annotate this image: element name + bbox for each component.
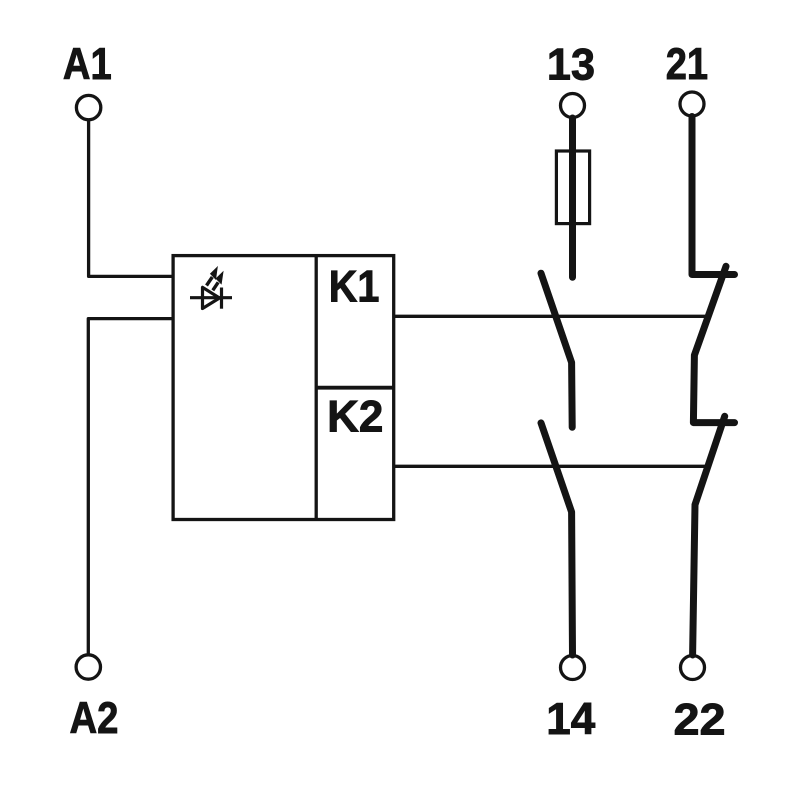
relay coil box U1 — [173, 256, 394, 520]
svg-text:K2: K2 — [327, 392, 383, 441]
divider between K1 and K2 — [316, 386, 394, 390]
divider between coil area and K columns — [315, 256, 318, 520]
svg-text:14: 14 — [546, 695, 595, 744]
svg-text:K1: K1 — [329, 262, 380, 311]
NC contact arm of K2 (21-22 path) — [693, 416, 725, 655]
terminal circle A1 — [76, 95, 100, 119]
wire A1 to coil box — [89, 121, 172, 277]
terminal circle A2 — [76, 655, 100, 679]
LED cathode bar — [220, 288, 223, 309]
svg-text:A1: A1 — [63, 40, 112, 89]
LED arrow 1 shaft — [207, 277, 213, 286]
LED horizontal lead — [190, 296, 232, 299]
wire 21 with NC seat bar — [692, 117, 735, 275]
wire 13 down through fuse — [569, 118, 576, 277]
svg-text:13: 13 — [547, 40, 595, 89]
terminal circle 13 — [561, 94, 585, 118]
NO contact arm of K2 (13-14 path) — [541, 423, 573, 655]
NC contact arm of K1 (21-22 path) with seat bar 2 — [693, 266, 734, 422]
LED indicator D1 — [190, 277, 232, 309]
svg-text:A2: A2 — [70, 694, 119, 743]
LED arrow 2 head — [216, 272, 223, 284]
mechanical link K1 to contacts — [395, 315, 707, 318]
svg-text:22: 22 — [674, 696, 726, 745]
wire A2 to coil box — [88, 319, 172, 655]
mechanical link K2 to contacts — [395, 465, 706, 468]
terminal circle 22 — [681, 656, 705, 680]
LED arrow 1 head — [211, 267, 218, 279]
terminal circle 14 — [561, 656, 585, 680]
LED triangle — [203, 287, 220, 308]
terminal circle 21 — [680, 92, 704, 116]
fuse F1 — [556, 151, 589, 224]
NO contact arm of K1 (13-14 path) — [541, 273, 572, 427]
svg-text:21: 21 — [666, 40, 708, 89]
LED arrow 2 shaft — [213, 282, 218, 290]
